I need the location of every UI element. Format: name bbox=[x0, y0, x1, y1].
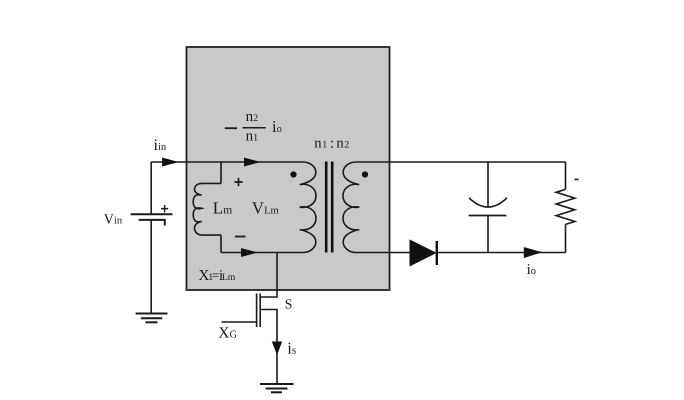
wire left vertical above battery bbox=[150, 162, 152, 214]
label - of VLm bbox=[235, 236, 246, 238]
wire MOSFET source bbox=[260, 310, 277, 343]
label + of battery bbox=[161, 205, 168, 212]
arrow iLm (bottom, inside box) bbox=[242, 249, 256, 257]
battery source Vin bbox=[131, 214, 173, 225]
averaged-model box bbox=[187, 47, 390, 290]
resistor load bbox=[556, 189, 575, 224]
wire secondary top to load bbox=[356, 161, 566, 163]
wire load right vertical top bbox=[565, 162, 567, 189]
wire top from source to primary bbox=[151, 161, 303, 163]
wire capacitor bottom bbox=[487, 216, 489, 253]
svg-text:1: 1 bbox=[322, 140, 327, 151]
svg-text:n: n bbox=[314, 135, 322, 151]
wire capacitor top bbox=[487, 162, 489, 207]
wire Lm top tap bbox=[220, 162, 222, 183]
svg-text:n: n bbox=[336, 135, 344, 151]
diode bbox=[410, 240, 436, 266]
svg-text:S: S bbox=[285, 296, 293, 311]
capacitor curved plate bbox=[469, 198, 507, 207]
inductor Lm winding bbox=[193, 183, 221, 235]
label - of load bbox=[575, 179, 579, 181]
transformer core bbox=[326, 162, 332, 253]
transformer secondary winding bbox=[343, 162, 359, 253]
arrow i_in bbox=[163, 158, 177, 166]
svg-text:2: 2 bbox=[344, 140, 349, 151]
svg-text:Lm: Lm bbox=[222, 272, 236, 283]
transformer primary winding bbox=[300, 162, 316, 253]
arrow magnetizing current (top, inside box) bbox=[245, 158, 259, 166]
svg-text:Vin: Vin bbox=[104, 213, 123, 228]
ground MOSFET bbox=[260, 384, 294, 392]
ground left bbox=[136, 314, 168, 323]
svg-text::: : bbox=[330, 135, 334, 151]
MOSFET S bbox=[257, 294, 261, 328]
wire MOSFET source to ground bbox=[276, 353, 278, 385]
wire Lm bottom tap bbox=[220, 235, 222, 252]
label -n2/n1 io expression bbox=[225, 109, 282, 144]
arrow io bbox=[524, 248, 540, 258]
wire diode to load bottom bbox=[437, 252, 566, 254]
wire MOSFET drain bbox=[260, 253, 277, 298]
wire left vertical below battery bbox=[150, 221, 152, 314]
wire bottom inside box bbox=[221, 252, 303, 254]
label + of VLm bbox=[234, 178, 242, 186]
capacitor straight plate bbox=[469, 215, 507, 217]
wire load right vertical bottom bbox=[565, 224, 567, 252]
dot secondary bbox=[362, 171, 368, 177]
wire MOSFET gate lead bbox=[222, 321, 257, 323]
wire secondary bottom to diode bbox=[356, 252, 410, 254]
arrow is bbox=[273, 342, 282, 354]
dot primary bbox=[290, 171, 296, 177]
